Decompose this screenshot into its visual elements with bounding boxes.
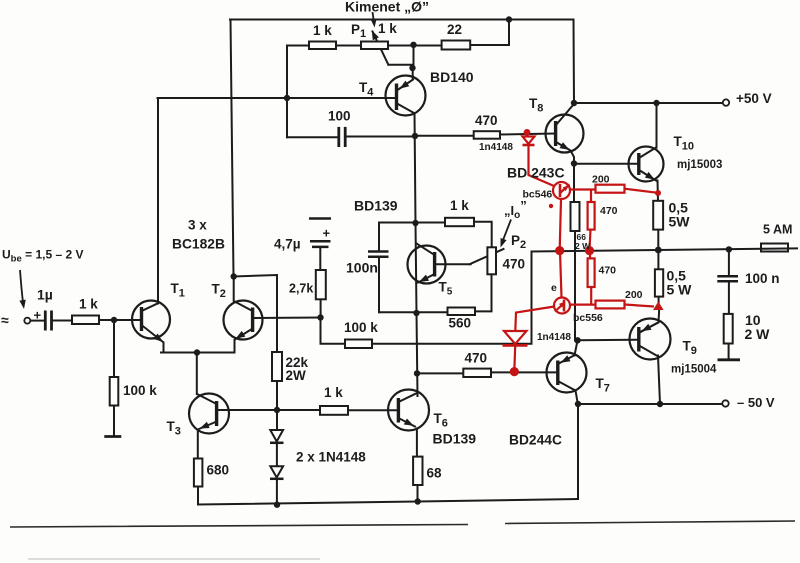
wire 100pF cap row left — [287, 136, 338, 138]
node P1 wiper / T4 emitter — [409, 65, 415, 71]
node 1k-left / T4 base — [284, 95, 290, 101]
node T2 collector — [231, 273, 237, 279]
node emitter rail T3 collector — [194, 349, 200, 355]
red dot marker near bc546 — [549, 204, 553, 208]
wire output node to 100n and 10 ohm network — [728, 249, 730, 359]
capacitor 4.7u electrolytic with open top bar — [309, 219, 331, 247]
node between P1 1k resistors and 22 — [410, 42, 416, 48]
node 22 to top rail — [506, 16, 512, 22]
wire P1 wiper diagonal and horizontal to T4 emitter node — [373, 32, 413, 65]
wire T1 emitter diagonal — [142, 325, 164, 342]
wire T1 collector diagonal — [142, 304, 158, 312]
wire T5 subcircuit bottom — [379, 274, 492, 312]
transistor T1 — [132, 301, 170, 339]
node output rail 100n — [726, 246, 732, 252]
wire diode node to 1k T6 — [277, 409, 320, 411]
transistor bc556 — [554, 298, 570, 314]
transistor T4 — [386, 76, 426, 116]
red wire 470 down to rail — [590, 230, 591, 250]
wire T3 collector vertical — [196, 353, 198, 395]
Io arrow — [502, 220, 512, 245]
wire T2 collector diagonal — [234, 277, 253, 312]
wire T9 collector down to -50V rail — [639, 346, 660, 405]
input terminal circle — [24, 318, 30, 324]
wire T4 collector node to 470 resistor — [415, 135, 474, 137]
svg-text:1n4148: 1n4148 — [537, 332, 571, 343]
svg-text:1 k: 1 k — [79, 297, 98, 312]
wire input terminal to cap — [30, 320, 44, 322]
resistor 200 lower red — [596, 301, 625, 309]
svg-text:BC182B: BC182B — [172, 237, 225, 252]
resistor 22 — [442, 41, 471, 50]
terminal +50V — [723, 99, 729, 105]
wire top rail from node above P1 network to T8 collector column — [230, 19, 574, 21]
wire T8 emitter diagonal — [556, 142, 574, 164]
svg-text:100 n: 100 n — [745, 271, 780, 286]
input signal arrow — [20, 270, 24, 306]
node 68 bottom rail — [415, 498, 421, 504]
wire T9 base bar to emitter diagonal — [639, 323, 658, 334]
capacitor 100n output — [717, 276, 738, 281]
red diode 1n4148 upper — [523, 137, 535, 144]
wire T6 emitter to 68 and bottom rail — [416, 429, 419, 502]
node T9 collector -50V rail — [657, 401, 663, 407]
svg-text:– 50 V: – 50 V — [737, 395, 775, 410]
wire T3 emitter to 680 — [197, 430, 199, 459]
wire central vertical T4 collector to T6 collector — [415, 113, 418, 396]
svg-text:BD244C: BD244C — [509, 433, 562, 448]
wire T5 subcircuit top — [379, 222, 492, 248]
red wire stub 470 lower from rail node — [589, 251, 591, 258]
transistor T5 — [408, 246, 446, 284]
red wire 200 to T10 emitter node — [625, 189, 659, 193]
node T8 collector +50V — [571, 100, 577, 106]
svg-text:1 k: 1 k — [450, 198, 469, 213]
node diode chain bottom rail — [274, 502, 280, 508]
potentiometer P2 body — [487, 247, 496, 274]
svg-text:1 k: 1 k — [324, 385, 343, 400]
node output rail 0.5 ohms — [655, 247, 662, 254]
svg-text:5W: 5W — [669, 214, 691, 230]
red wire bc556 base to lower diode — [515, 307, 554, 332]
svg-text:100: 100 — [328, 109, 351, 124]
node T7 collector -50V rail — [575, 401, 581, 407]
wire T8 collector diagonal — [556, 105, 574, 126]
red node on T8 base wire — [524, 129, 531, 136]
svg-text:2 W: 2 W — [575, 241, 591, 251]
wire top rail right end down to T8 collector node — [573, 20, 576, 104]
red wire 470 lower to bc556 collector row — [570, 287, 596, 305]
wire T4 collector diagonal — [397, 104, 414, 114]
node T8 emitter / T10 base — [571, 160, 577, 166]
wire 0.5 ohm to output node — [657, 230, 659, 250]
svg-text:22: 22 — [447, 22, 462, 37]
svg-text:5 W: 5 W — [667, 282, 693, 298]
wire T7 emitter stub — [575, 341, 578, 356]
svg-text:100n: 100n — [346, 260, 378, 276]
red node on output rail right — [585, 246, 594, 255]
resistor 1k T5 — [445, 218, 474, 226]
resistor 470 T4-T8 — [474, 131, 500, 139]
red wire bc546 emitter to 200 — [570, 188, 596, 190]
wire T5 emitter diagonal — [418, 274, 435, 283]
red wire bc546 collector down to rail node — [560, 199, 561, 250]
svg-text:560: 560 — [449, 316, 472, 331]
resistor 0.5 5W lower — [655, 269, 663, 296]
wire 2.7k stubs to cap and to base node — [319, 247, 321, 317]
node 22k / diodes / 1k T6 base — [274, 407, 280, 413]
wire T5 base — [435, 263, 471, 265]
wire T6 collector diagonal — [398, 394, 416, 403]
wire 680 to bottom rail, bottom rail to T7 column — [198, 487, 578, 505]
resistor 1k P1 left — [72, 41, 733, 487]
red modification network — [503, 129, 664, 376]
wire T3 base from diode node — [217, 409, 277, 411]
capacitor 1u input — [45, 311, 51, 331]
resistor 100k feedback — [345, 340, 372, 349]
svg-text:68: 68 — [427, 466, 443, 481]
bottom page lines — [10, 521, 795, 527]
svg-text:1µ: 1µ — [37, 287, 53, 303]
resistor 560 — [448, 308, 476, 316]
svg-text:+: + — [323, 226, 331, 241]
ground bar below 10 2W — [718, 358, 741, 361]
wire T2 emitter stub — [234, 340, 236, 353]
svg-text:200: 200 — [625, 289, 643, 301]
svg-text:470: 470 — [465, 351, 488, 366]
resistor 470 upper red — [588, 202, 595, 230]
resistor 2.7k — [316, 270, 326, 299]
wire P1 row segments — [287, 45, 442, 47]
wire T6 collector node to 470 — [417, 372, 463, 374]
resistor 470 lower red — [588, 258, 595, 287]
svg-text:200: 200 — [592, 174, 610, 186]
svg-text:4,7µ: 4,7µ — [274, 237, 301, 252]
resistor 66 2W — [571, 202, 580, 231]
svg-text:1n4148: 1n4148 — [479, 142, 513, 153]
wire output node down through 0.5 ohm to T9 emitter — [657, 250, 659, 308]
resistor 22k 2W — [272, 352, 282, 381]
capacitor 100 miller — [339, 127, 345, 147]
resistor 10 2W — [724, 314, 733, 344]
wire T10 collector up to +50V — [639, 103, 657, 158]
wire T7 emitter node to T9 base — [578, 339, 639, 342]
wire vertical x287 from 1k left end down to T4 base wire and cap — [286, 46, 288, 138]
fuse 5AM — [761, 244, 788, 252]
wire T9 emitter diagonal — [639, 308, 659, 333]
svg-text:1 k: 1 k — [313, 23, 332, 38]
wire 22k through diodes chain — [276, 381, 278, 505]
svg-text:e: e — [551, 282, 557, 294]
resistor 0.5 5W upper — [653, 201, 663, 230]
red node on output rail left — [555, 246, 564, 255]
wire 470 to T8 base — [500, 134, 555, 135]
svg-text:2 W: 2 W — [745, 326, 771, 342]
wire cap to 1k — [53, 320, 73, 322]
svg-text:BD140: BD140 — [430, 69, 474, 85]
wire 1k to T1 base — [99, 319, 141, 321]
svg-text:100 k: 100 k — [123, 383, 157, 398]
wire T1 collector to T4 base — [158, 97, 397, 99]
wire T7 collector diagonal — [558, 381, 576, 391]
node T5 top — [412, 220, 418, 226]
resistor 680 — [194, 459, 203, 487]
wire T2 collector node to 22k — [234, 275, 277, 352]
Kimenet arrow — [373, 12, 375, 24]
ground bar below input 100k — [104, 435, 121, 438]
wire cap to T4 collector node — [346, 136, 416, 138]
wire T7 collector stub — [576, 391, 578, 405]
svg-text:+50 V: +50 V — [736, 91, 772, 106]
wire T4 emitter vertical — [399, 68, 414, 89]
resistor 68 — [413, 457, 422, 485]
node T5 bottom — [413, 310, 419, 316]
node T10 collector +50V — [653, 100, 659, 106]
resistor 1k input — [72, 316, 99, 325]
wire junction between 1k resistors down to wiper node — [413, 45, 415, 68]
svg-text:5 AM: 5 AM — [763, 223, 792, 237]
wire T1 T2 emitter rail — [161, 352, 235, 354]
wire T10 emitter to 0.5 ohm — [639, 170, 658, 201]
svg-text:100 k: 100 k — [344, 320, 378, 335]
transistor bc546 — [553, 182, 570, 199]
wire left vertical from top rail down to T2 collector node — [231, 20, 234, 277]
red diode 1n4148 lower — [504, 331, 527, 344]
transistor T8 — [546, 115, 584, 153]
svg-text:2W: 2W — [286, 368, 307, 383]
resistor 1k P1 right — [361, 42, 388, 50]
svg-text:3 x: 3 x — [188, 218, 207, 233]
red wire diode to bc546 base — [529, 145, 555, 186]
svg-text:bc546: bc546 — [523, 189, 553, 201]
red wire rail node down to bc556 emitter — [560, 251, 562, 298]
terminal -50V — [722, 400, 728, 406]
resistor 470 T6-T7 — [463, 369, 491, 377]
wire T8 emitter node to T10 base — [575, 163, 639, 165]
svg-text:1 k: 1 k — [378, 21, 397, 36]
svg-text:470: 470 — [475, 113, 498, 128]
svg-text:BD 243C: BD 243C — [507, 165, 565, 181]
wire T3 emitter diagonal — [199, 422, 217, 430]
resistor 200 upper red — [596, 185, 625, 193]
wire T3 collector diagonal — [198, 395, 217, 405]
wire T2 base — [253, 317, 321, 320]
wire input node down to 100k — [113, 320, 115, 436]
svg-text:mj15004: mj15004 — [671, 364, 717, 376]
wire T5 subcircuit left vertical with 100n cap gap — [378, 223, 380, 313]
svg-text:BD139: BD139 — [433, 431, 477, 447]
diode D1 of 2x1N4148 — [270, 430, 284, 443]
red wire diode to T7 base node — [513, 347, 516, 372]
wire 1k to T6 base — [348, 409, 399, 411]
svg-text:bc556: bc556 — [573, 312, 603, 324]
red wire stub to 470 upper — [590, 190, 592, 203]
svg-text:680: 680 — [207, 463, 230, 478]
wire T8 emitter node down through 66 resistor to T7 emitter node — [574, 164, 575, 341]
node input T1 base — [111, 317, 117, 323]
wire T2 emitter diagonal — [235, 329, 253, 340]
red wire 200 lower to T9 emitter node — [625, 305, 655, 307]
node T4 collector / 100 cap — [412, 133, 418, 139]
wire P2 wiper diagonal — [470, 249, 504, 264]
wire T7 collector column down to bottom rail — [577, 404, 579, 499]
svg-text:BD139: BD139 — [354, 198, 398, 214]
svg-text:Kimenet „Ø”: Kimenet „Ø” — [345, 0, 429, 15]
node T6 collector / 470 — [414, 370, 420, 376]
resistor 100k input — [110, 377, 119, 406]
wire feedback: base node down, 100k row, up to bias node, output rail — [321, 248, 798, 343]
red node on T7 base wire — [510, 367, 519, 376]
wire T1 emitter stub — [163, 343, 165, 353]
node T2 base / 2.7k — [317, 314, 323, 320]
svg-text:2,7k: 2,7k — [289, 282, 313, 296]
P1 wiper arrowhead — [369, 29, 379, 40]
wire T7 emitter diagonal — [558, 356, 574, 365]
transistor T10 — [629, 147, 664, 182]
svg-text:≈: ≈ — [1, 312, 9, 328]
wire 22-ohm right end up to top rail — [470, 20, 509, 46]
svg-text:2 x 1N4148: 2 x 1N4148 — [296, 450, 366, 465]
svg-text:470: 470 — [600, 205, 618, 217]
wire T6 emitter diagonal — [398, 418, 415, 427]
wire +50V rail — [574, 102, 723, 104]
wire T5 collector diagonal — [417, 244, 435, 256]
capacitor 100n T5 — [368, 252, 389, 257]
node T7 emitter / T9 base — [574, 337, 580, 343]
transistor T3 — [189, 394, 229, 434]
svg-text:470: 470 — [599, 265, 617, 277]
transistor T6 — [388, 390, 429, 431]
resistor 1k T6 — [320, 406, 348, 415]
transistor T2 — [224, 301, 263, 340]
wire -50V rail — [578, 403, 723, 405]
wire 470 to T7 base — [491, 371, 558, 373]
svg-text:+: + — [34, 308, 42, 323]
svg-text:mj15003: mj15003 — [677, 159, 722, 171]
transistor T9 — [630, 319, 671, 360]
red junction triangle at T9 emitter node — [653, 302, 664, 311]
svg-text:470: 470 — [503, 257, 526, 272]
transistor T7 — [547, 353, 587, 393]
wire T1 collector vertical — [157, 98, 159, 304]
diode D2 of 2x1N4148 — [270, 466, 284, 479]
